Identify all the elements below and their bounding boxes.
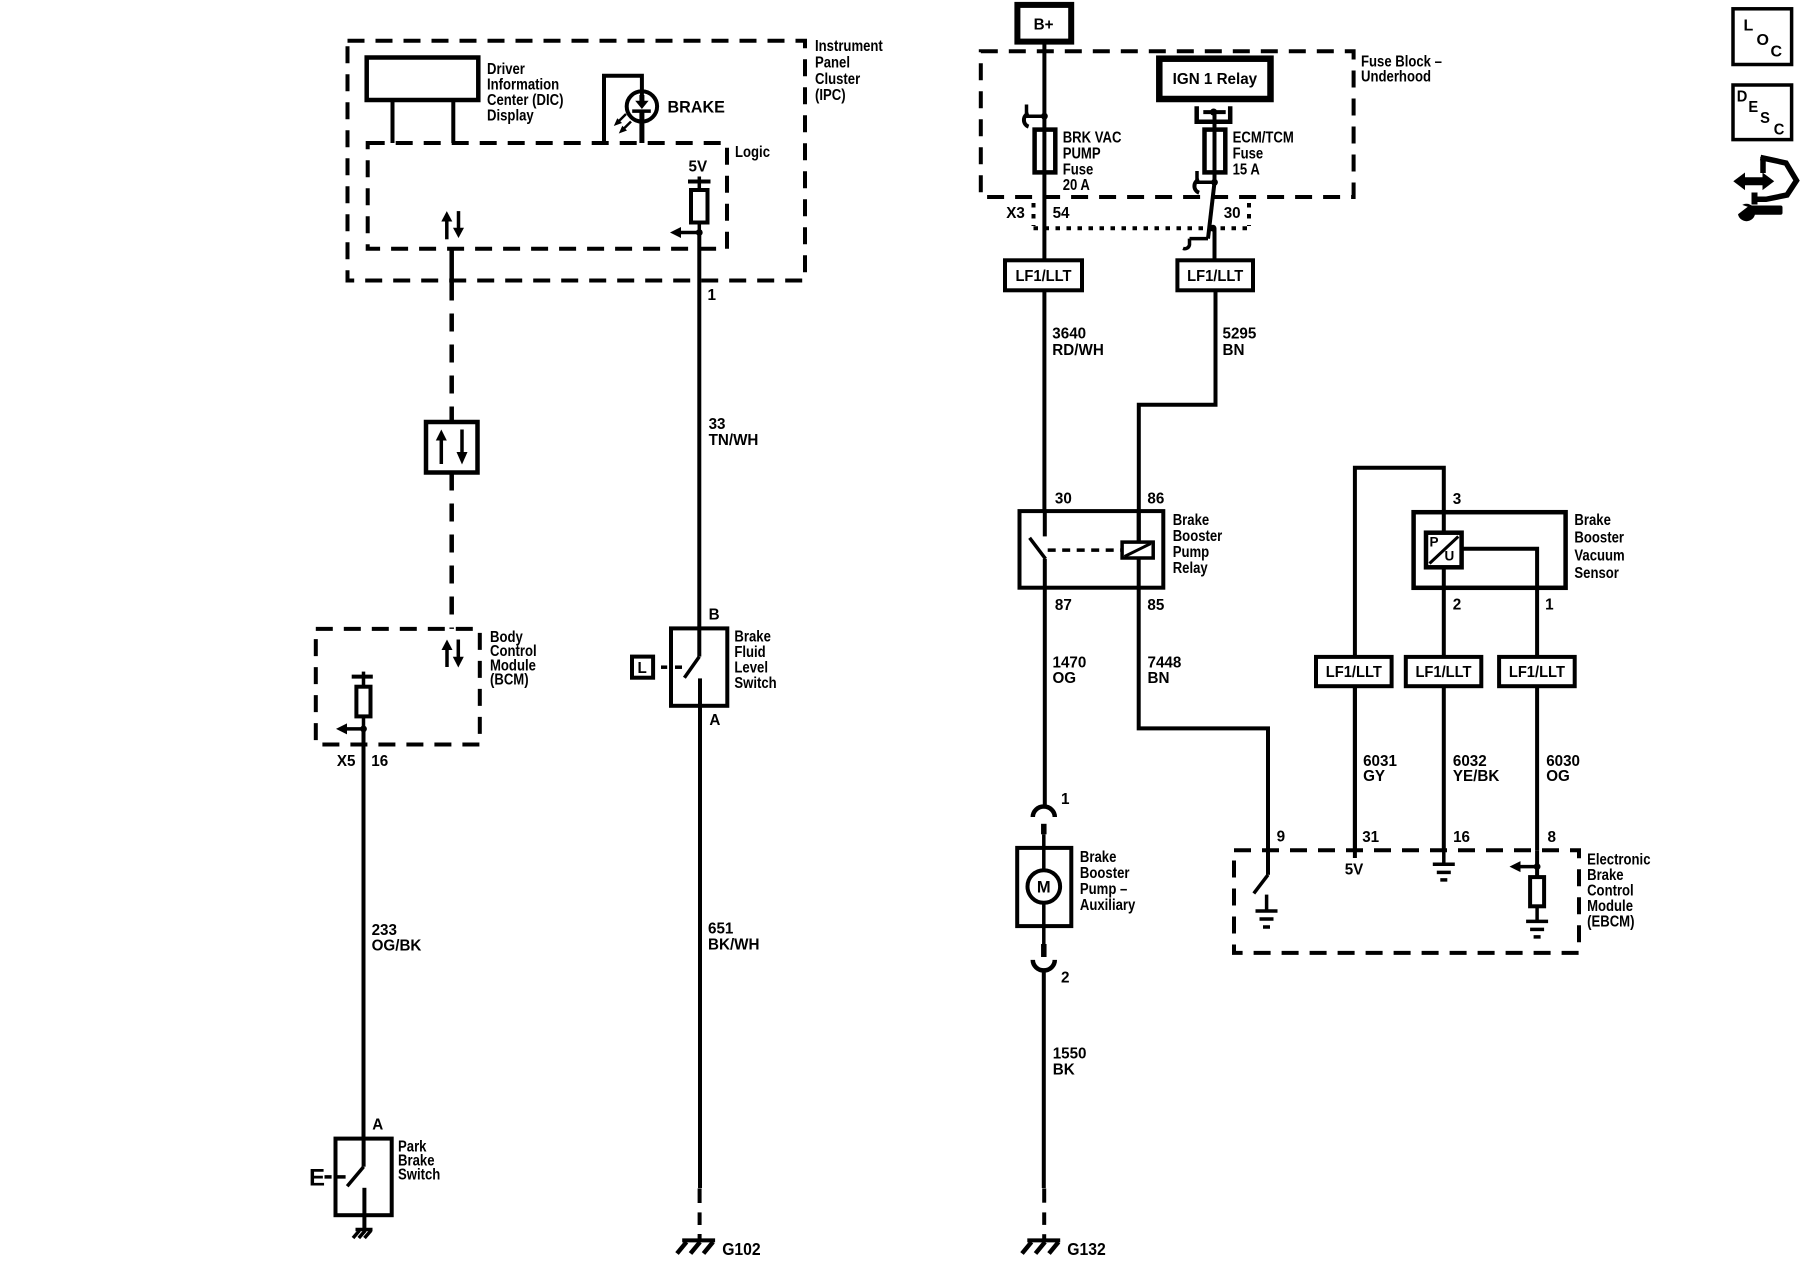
- svg-text:LF1/LLT: LF1/LLT: [1015, 268, 1071, 285]
- switch: Park Brake Switch: [336, 1139, 392, 1216]
- wire 1470 OG: [1045, 588, 1087, 807]
- level sensor icon L: [632, 657, 682, 678]
- wire 6031 GY: [1355, 686, 1397, 850]
- svg-text:Instrument: Instrument: [815, 38, 883, 55]
- svg-text:Electronic: Electronic: [1587, 851, 1650, 868]
- svg-text:Display: Display: [487, 108, 534, 125]
- label Fuse Block - Underhood: [1361, 54, 1442, 86]
- fuse BRK VAC PUMP 20 A: [1035, 130, 1056, 173]
- pin A (fluid level switch): [709, 712, 720, 729]
- svg-text:Fluid: Fluid: [734, 644, 765, 661]
- svg-text:Booster: Booster: [1173, 528, 1223, 545]
- svg-text:E: E: [309, 1165, 325, 1192]
- label Instrument Panel Cluster (IPC): [815, 38, 883, 104]
- ground lead dashes G132: [1042, 1188, 1046, 1240]
- label BRK VAC PUMP Fuse 20 A: [1063, 130, 1122, 195]
- svg-text:Auxiliary: Auxiliary: [1080, 897, 1135, 914]
- wire 6032 YE/BK: [1444, 686, 1500, 850]
- svg-text:LF1/LLT: LF1/LLT: [1326, 664, 1382, 681]
- relay contact arm: [1030, 511, 1046, 588]
- wire B+ to BRK VAC PUMP fuse: [1042, 42, 1046, 130]
- logic block dashed outline inside IPC: [368, 143, 727, 249]
- wire lamp branch: [604, 76, 642, 143]
- svg-text:TN/WH: TN/WH: [709, 432, 759, 449]
- svg-text:1: 1: [1545, 597, 1554, 614]
- svg-text:87: 87: [1055, 597, 1072, 614]
- svg-text:Logic: Logic: [735, 144, 770, 161]
- sensor input resistor to ground (EBCM pin 8): [1510, 850, 1549, 937]
- ground code E: [309, 1165, 346, 1192]
- svg-text:54: 54: [1053, 205, 1070, 222]
- bus splice hook (B+ feed): [1024, 105, 1048, 127]
- svg-text:1550: 1550: [1053, 1046, 1087, 1063]
- svg-text:D: D: [1737, 89, 1748, 106]
- wire 651 BK/WH down to G102: [698, 706, 702, 1188]
- svg-text:Level: Level: [734, 660, 768, 677]
- label 5V (IPC logic): [689, 158, 708, 175]
- wire serial data to BCM: [449, 473, 454, 629]
- connector X3 dotted line: [1034, 203, 1250, 228]
- svg-text:Information: Information: [487, 77, 559, 94]
- wire 3640 RD/WH: [1044, 290, 1103, 511]
- svg-text:BRAKE: BRAKE: [668, 97, 725, 116]
- label BRAKE: [668, 97, 725, 116]
- inline connector pin 1 (pump feed): [1033, 791, 1070, 848]
- sensor box Brake Booster Vacuum Sensor: [1414, 512, 1566, 588]
- svg-text:5295: 5295: [1223, 326, 1257, 343]
- resistor (IPC pull-up): [691, 182, 708, 223]
- wire serial data from IPC: [449, 249, 454, 422]
- svg-text:OG: OG: [1053, 670, 1077, 687]
- wire label 233 OG/BK: [372, 922, 422, 955]
- svg-text:B+: B+: [1034, 17, 1054, 34]
- svg-text:5V: 5V: [689, 158, 708, 175]
- svg-text:3640: 3640: [1052, 326, 1086, 343]
- svg-text:Driver: Driver: [487, 61, 525, 78]
- wire IPC pin 1 down to fluid level switch: [697, 233, 701, 629]
- svg-text:2: 2: [1061, 969, 1070, 986]
- svg-text:X3: X3: [1006, 205, 1025, 222]
- svg-text:B: B: [709, 606, 720, 623]
- pin A (park brake switch): [372, 1116, 383, 1133]
- label Driver Information Center (DIC) Display: [487, 61, 564, 125]
- label Brake Booster Pump - Auxiliary: [1080, 849, 1135, 914]
- svg-text:Underhood: Underhood: [1361, 68, 1431, 85]
- harness label LF1/LLT (sensor 31): [1316, 657, 1392, 686]
- svg-text:BK/WH: BK/WH: [708, 937, 760, 954]
- svg-text:2: 2: [1453, 597, 1462, 614]
- svg-text:31: 31: [1362, 829, 1379, 846]
- relay pins 30 86: [1055, 491, 1164, 508]
- pin B (fluid level switch): [709, 606, 720, 623]
- svg-text:LF1/LLT: LF1/LLT: [1509, 664, 1565, 681]
- svg-text:BN: BN: [1223, 342, 1245, 359]
- relay actuation dashed link: [1048, 548, 1122, 552]
- harness label LF1/LLT (right): [1177, 260, 1253, 290]
- svg-text:Relay: Relay: [1173, 560, 1208, 577]
- svg-text:O: O: [1757, 32, 1769, 49]
- svg-text:YE/BK: YE/BK: [1453, 768, 1500, 785]
- svg-text:33: 33: [709, 416, 726, 433]
- svg-text:Vacuum: Vacuum: [1574, 547, 1624, 564]
- label Brake Booster Pump Relay: [1173, 512, 1223, 577]
- svg-text:651: 651: [708, 921, 733, 938]
- serial data arrows (BCM): [442, 640, 464, 668]
- svg-text:X5: X5: [337, 753, 356, 770]
- svg-text:Booster: Booster: [1574, 530, 1624, 547]
- svg-text:Switch: Switch: [734, 675, 776, 692]
- svg-text:1: 1: [1061, 791, 1070, 808]
- EBCM pins 9 31 16 8: [1277, 828, 1556, 846]
- svg-text:86: 86: [1147, 491, 1164, 508]
- svg-text:G102: G102: [722, 1239, 761, 1259]
- svg-text:A: A: [372, 1116, 383, 1133]
- icon LOC box: [1733, 9, 1792, 65]
- serial data comm block (two-way arrows box): [426, 422, 478, 473]
- 5V reference (EBCM pin 31): [1345, 861, 1364, 878]
- svg-text:IGN 1 Relay: IGN 1 Relay: [1173, 71, 1258, 88]
- wire 7448 BN to EBCM pin 9: [1139, 558, 1268, 850]
- svg-text:BN: BN: [1148, 670, 1170, 687]
- svg-text:5V: 5V: [1345, 861, 1364, 878]
- svg-text:LF1/LLT: LF1/LLT: [1187, 268, 1243, 285]
- wire 1550 BK to G132: [1044, 970, 1087, 1188]
- svg-text:233: 233: [372, 922, 397, 939]
- bus splice hook (ECM/TCM fuse out): [1194, 171, 1217, 193]
- module box Fuse Block - Underhood dashed outline: [981, 51, 1354, 197]
- svg-text:C: C: [1774, 122, 1785, 139]
- svg-text:OG: OG: [1546, 768, 1570, 785]
- wire 6030 OG: [1537, 686, 1580, 850]
- icon data link arrows with wrench: [1733, 157, 1796, 221]
- svg-text:Brake: Brake: [734, 629, 771, 646]
- svg-text:Fuse: Fuse: [1233, 145, 1264, 162]
- svg-text:(EBCM): (EBCM): [1587, 913, 1634, 930]
- indicator lamp BRAKE: [614, 91, 657, 133]
- voltage tap 5V: [688, 177, 711, 182]
- label Body Control Module (BCM): [490, 629, 537, 689]
- switch to ground (EBCM pin 9): [1254, 850, 1278, 927]
- svg-text:PUMP: PUMP: [1063, 145, 1101, 162]
- svg-text:L: L: [638, 660, 648, 677]
- switch: Brake Fluid Level Switch: [671, 628, 727, 705]
- ground (park brake switch): [353, 1215, 373, 1238]
- motor: Brake Booster Pump - Auxiliary: [1017, 848, 1071, 926]
- svg-text:RD/WH: RD/WH: [1052, 342, 1104, 359]
- relay output terminal bracket: [1197, 106, 1231, 172]
- connector X5 pin 16: [337, 753, 388, 770]
- wire sensor pin 2: [1444, 567, 1461, 657]
- svg-text:BRK VAC: BRK VAC: [1063, 130, 1122, 147]
- module box BCM dashed outline: [316, 629, 480, 745]
- voltage tap (BCM): [352, 672, 373, 677]
- svg-text:ECM/TCM: ECM/TCM: [1233, 130, 1294, 147]
- svg-text:Control: Control: [1587, 882, 1634, 899]
- svg-text:(BCM): (BCM): [490, 672, 529, 689]
- wire loop EBCM pin 31 to sensor pin 3: [1355, 468, 1444, 858]
- svg-text:(IPC): (IPC): [815, 87, 846, 104]
- svg-text:S: S: [1760, 110, 1770, 127]
- svg-text:16: 16: [371, 753, 388, 770]
- svg-text:Cluster: Cluster: [815, 71, 860, 88]
- power feed B+: [1017, 5, 1071, 42]
- wire jog through X3 pin 30: [1183, 182, 1216, 260]
- pin 1 (IPC): [708, 287, 717, 304]
- svg-text:7448: 7448: [1148, 654, 1182, 671]
- fuse ECM/TCM 15 A: [1205, 130, 1226, 173]
- svg-text:Center (DIC): Center (DIC): [487, 92, 564, 109]
- pressure transducer P/U: [1426, 533, 1462, 568]
- svg-text:1: 1: [708, 287, 717, 304]
- signal arrow (BCM input): [336, 716, 367, 734]
- ground (EBCM pin 16): [1433, 850, 1455, 880]
- ground lead dashes G102: [698, 1188, 702, 1240]
- inline connector pin 2 (pump ground): [1033, 926, 1070, 986]
- svg-text:85: 85: [1147, 597, 1164, 614]
- connector labels X3 54 30: [1006, 205, 1240, 222]
- signal arrow (IPC input): [670, 223, 703, 239]
- svg-text:Brake: Brake: [1587, 867, 1624, 884]
- ground G132: [1022, 1239, 1106, 1259]
- svg-text:15 A: 15 A: [1233, 161, 1261, 178]
- wire BRK VAC fuse to X3 pin 54: [1042, 130, 1046, 261]
- wire 5295 BN: [1139, 290, 1257, 542]
- resistor (BCM pull-up): [356, 677, 370, 717]
- serial data arrows (IPC logic): [441, 211, 464, 239]
- pin 3 (sensor): [1453, 491, 1462, 508]
- svg-text:Sensor: Sensor: [1574, 565, 1619, 582]
- svg-text:Switch: Switch: [398, 1167, 440, 1184]
- relay coil: [1122, 511, 1153, 558]
- label ECM/TCM Fuse 15 A: [1233, 130, 1294, 179]
- DIC display box: [367, 58, 479, 144]
- svg-text:A: A: [709, 712, 720, 729]
- svg-text:LF1/LLT: LF1/LLT: [1415, 664, 1471, 681]
- module box IPC (Instrument Panel Cluster) dashed outline: [348, 41, 806, 281]
- svg-text:OG/BK: OG/BK: [372, 938, 422, 955]
- svg-text:Brake: Brake: [1574, 512, 1611, 529]
- svg-text:20 A: 20 A: [1063, 177, 1091, 194]
- svg-text:8: 8: [1548, 829, 1557, 846]
- wire sensor pin 1: [1462, 549, 1554, 657]
- label Brake Booster Vacuum Sensor: [1574, 512, 1624, 582]
- svg-text:16: 16: [1453, 829, 1470, 846]
- svg-text:BK: BK: [1053, 1062, 1075, 1079]
- svg-text:Panel: Panel: [815, 55, 850, 72]
- label Logic: [735, 144, 770, 161]
- svg-text:Pump –: Pump –: [1080, 881, 1127, 898]
- svg-text:Brake: Brake: [1173, 512, 1210, 529]
- svg-text:Pump: Pump: [1173, 544, 1210, 561]
- svg-text:Booster: Booster: [1080, 865, 1130, 882]
- svg-text:GY: GY: [1363, 768, 1385, 785]
- wire label 651 BK/WH: [708, 921, 760, 954]
- harness label LF1/LLT (left): [1005, 260, 1082, 290]
- label Brake Fluid Level Switch: [734, 629, 776, 693]
- relay box IGN 1 Relay: [1159, 59, 1270, 99]
- harness label LF1/LLT (sensor 16): [1406, 657, 1482, 686]
- svg-text:U: U: [1445, 548, 1455, 563]
- relay pins 87 85: [1055, 597, 1164, 614]
- svg-text:30: 30: [1055, 491, 1072, 508]
- icon DESC box: [1733, 85, 1792, 140]
- svg-text:L: L: [1744, 17, 1754, 34]
- svg-text:Brake: Brake: [1080, 849, 1117, 866]
- relay box Brake Booster Pump Relay: [1020, 511, 1164, 588]
- wire BCM X5 pin 16 down to park brake switch: [362, 729, 366, 1139]
- svg-text:3: 3: [1453, 491, 1462, 508]
- svg-text:9: 9: [1277, 828, 1286, 845]
- label Park Brake Switch: [398, 1139, 440, 1184]
- svg-text:C: C: [1771, 44, 1783, 61]
- svg-text:1470: 1470: [1053, 654, 1087, 671]
- harness label LF1/LLT (sensor 8): [1499, 657, 1575, 686]
- wire label 33 TN/WH: [709, 416, 759, 449]
- module box EBCM dashed outline: [1234, 850, 1579, 953]
- svg-text:30: 30: [1224, 205, 1241, 222]
- svg-text:E: E: [1748, 99, 1758, 116]
- ground G102: [677, 1239, 761, 1259]
- svg-text:P: P: [1430, 534, 1439, 549]
- svg-text:Fuse: Fuse: [1063, 161, 1094, 178]
- label Electronic Brake Control Module (EBCM): [1587, 851, 1650, 930]
- svg-text:G132: G132: [1067, 1239, 1106, 1259]
- svg-text:M: M: [1037, 879, 1051, 897]
- svg-text:Module: Module: [1587, 898, 1633, 915]
